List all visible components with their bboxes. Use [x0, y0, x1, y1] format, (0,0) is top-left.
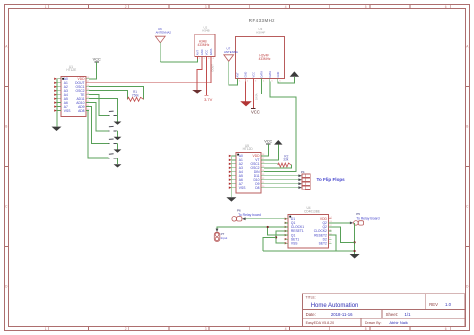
svg-text:2: 2	[125, 327, 127, 331]
svg-text:DATA: DATA	[255, 93, 259, 100]
svg-text:GND: GND	[200, 49, 204, 55]
svg-text:3: 3	[205, 327, 207, 331]
svg-text:2018-11-16: 2018-11-16	[331, 312, 353, 317]
svg-text:33k: 33k	[283, 158, 289, 162]
svg-text:6: 6	[445, 327, 447, 331]
svg-text:VCC: VCC	[252, 72, 256, 78]
svg-text:1: 1	[45, 327, 47, 331]
svg-text:DATA: DATA	[209, 48, 213, 55]
svg-text:3: 3	[205, 5, 207, 9]
svg-text:750k: 750k	[132, 94, 139, 98]
svg-text:HT12D: HT12D	[243, 147, 254, 151]
svg-text:VCC: VCC	[264, 140, 272, 144]
svg-text:Home Automation: Home Automation	[311, 303, 359, 309]
svg-text:B: B	[466, 125, 468, 129]
svg-text:TITLE:: TITLE:	[306, 296, 316, 300]
svg-text:AD8: AD8	[78, 109, 85, 113]
svg-text:D8: D8	[255, 186, 259, 190]
svg-text:3.7V: 3.7V	[204, 97, 213, 102]
svg-text:VCC: VCC	[205, 50, 209, 56]
svg-text:B: B	[5, 125, 7, 129]
svg-text:VSS: VSS	[239, 186, 246, 190]
svg-text:ANTENNA2: ANTENNA2	[156, 30, 172, 34]
svg-text:ANTENNA: ANTENNA	[224, 50, 238, 54]
svg-text:Sheet:: Sheet:	[386, 312, 398, 317]
svg-text:H3V4F: H3V4F	[256, 30, 265, 34]
svg-text:Input: Input	[221, 236, 228, 240]
svg-text:1/1: 1/1	[405, 312, 412, 317]
svg-text:VCC: VCC	[251, 110, 260, 115]
svg-text:Abhir Naik: Abhir Naik	[389, 320, 407, 325]
svg-text:4: 4	[285, 5, 287, 9]
svg-text:VSS: VSS	[64, 109, 71, 113]
svg-text:RF433MHz: RF433MHz	[249, 18, 275, 23]
svg-text:DOUT: DOUT	[211, 64, 215, 72]
svg-text:5: 5	[365, 327, 367, 331]
svg-text:To Flip Flops: To Flip Flops	[317, 177, 346, 182]
svg-text:H34B: H34B	[202, 29, 209, 33]
svg-text:VSS: VSS	[291, 241, 298, 245]
svg-text:6: 6	[445, 5, 447, 9]
svg-text:HT12E: HT12E	[66, 68, 76, 72]
svg-text:GND: GND	[243, 72, 247, 78]
svg-text:CD4013BE: CD4013BE	[304, 209, 320, 213]
svg-text:SET2: SET2	[319, 241, 327, 245]
svg-text:DATA: DATA	[260, 71, 264, 78]
svg-text:To Relay board: To Relay board	[238, 213, 261, 217]
svg-text:P4: P4	[301, 170, 305, 174]
svg-text:4: 4	[285, 327, 287, 331]
svg-text:1.0: 1.0	[445, 302, 452, 307]
svg-text:5: 5	[365, 5, 367, 9]
svg-text:2: 2	[125, 5, 127, 9]
svg-text:Drawn By:: Drawn By:	[365, 321, 382, 325]
svg-text:433MHz: 433MHz	[198, 43, 210, 47]
svg-text:REV: REV	[429, 302, 438, 307]
svg-text:To Relay Board: To Relay Board	[356, 216, 379, 220]
svg-text:1: 1	[45, 5, 47, 9]
svg-text:VCC: VCC	[93, 58, 101, 62]
svg-text:P6: P6	[237, 209, 241, 213]
svg-text:EasyEDA V5.8.20: EasyEDA V5.8.20	[306, 321, 335, 325]
svg-text:ANT: ANT	[236, 72, 240, 78]
svg-text:433MHz: 433MHz	[259, 57, 271, 61]
svg-text:GND: GND	[276, 72, 280, 78]
svg-text:DATA: DATA	[268, 71, 272, 78]
svg-text:Date:: Date:	[306, 312, 316, 317]
svg-text:ANT: ANT	[196, 50, 200, 56]
